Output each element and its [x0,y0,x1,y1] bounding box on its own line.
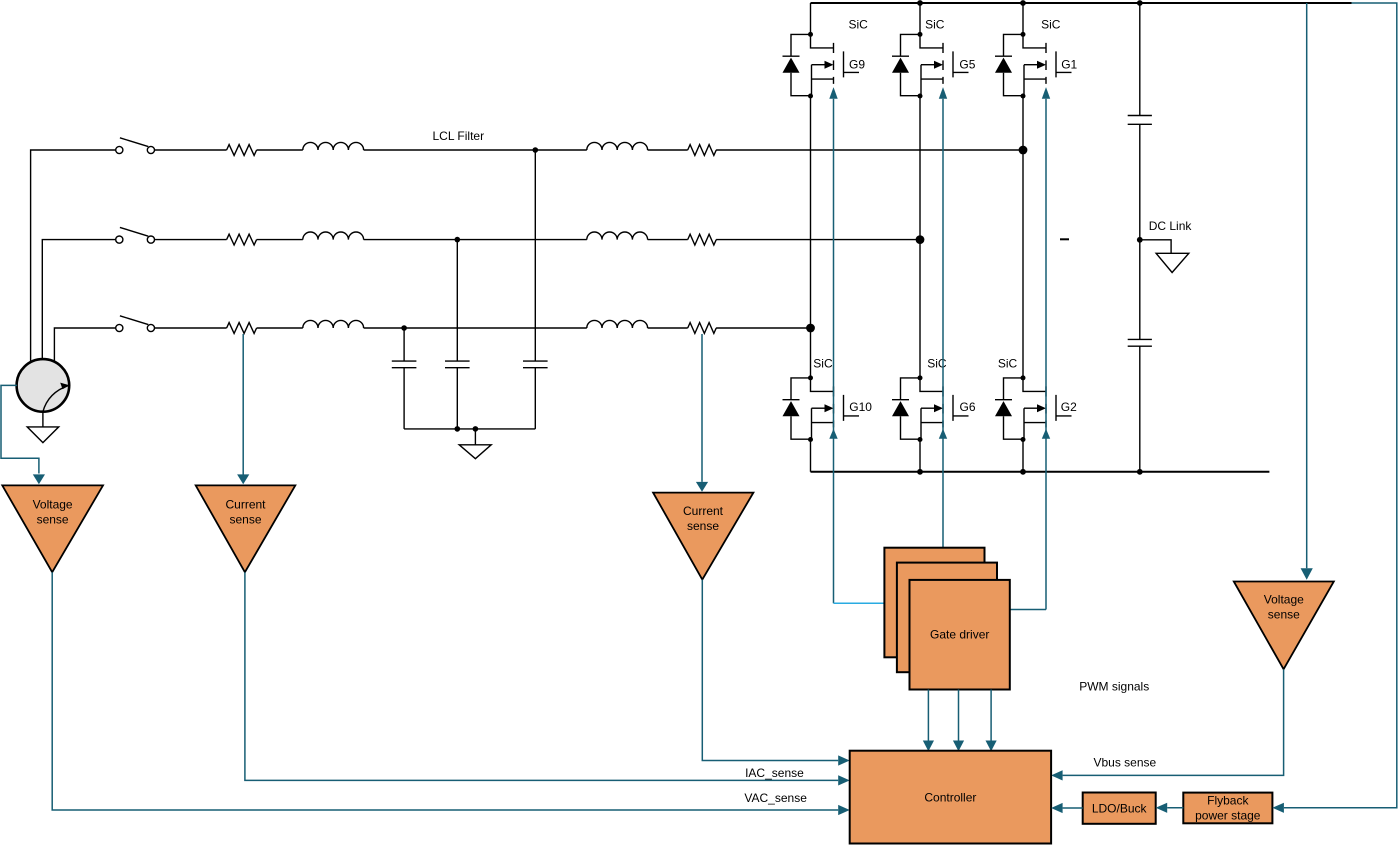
inductor L4 phase B [587,232,648,240]
svg-text:LDO/Buck: LDO/Buck [1092,801,1148,815]
wire phase B from source [42,240,115,360]
wire DC bus to voltage sense (teal) [1306,3,1308,568]
capacitor C1 [403,328,405,361]
wire phase C R to L [257,327,303,329]
capacitor C2 [456,240,458,362]
wire PWM gate driver to controller 1 (teal) [927,690,929,741]
svg-text:Gate driver: Gate driver [930,627,989,641]
node phase C bridge [806,324,815,333]
flyback power stage U5 [1183,793,1272,824]
svg-text:G2: G2 [1061,400,1077,414]
transistor Q9 (top leg1, SiC) [783,32,860,99]
node cap bank [455,426,461,432]
voltage sense block (left) [2,485,103,572]
controller U2 [850,751,1051,844]
gate driver stack back [884,548,984,658]
wire phase C L2 to R2 [648,327,688,329]
node DC link midpoint [1137,237,1143,243]
label minus [1060,238,1069,240]
gate driver U3 front [910,580,1010,690]
capacitor DC link bottom [1139,346,1141,472]
svg-text:SiC: SiC [849,17,869,31]
svg-text:SiC: SiC [813,357,833,371]
svg-text:power stage: power stage [1195,808,1261,822]
wire LDO to controller (teal) [1063,807,1083,809]
wire phase A switch to R [155,149,227,151]
transistor Q10 (bottom leg1, SiC) [783,375,860,442]
svg-text:sense: sense [687,519,719,533]
breaker switch phase C [116,324,123,331]
wire VAC_sense to controller (teal) [52,572,838,810]
wire gate drive leg1 (teal) [833,99,835,604]
wire phase A R to L [257,149,303,151]
svg-text:SiC: SiC [925,17,945,31]
svg-text:SiC: SiC [998,357,1018,371]
svg-text:Vbus sense: Vbus sense [1094,755,1157,769]
wire cap bank bottom [404,428,535,430]
node top bus leg3 [1020,0,1026,6]
svg-text:sense: sense [1268,608,1300,622]
wire leg2 vertical [919,3,921,472]
svg-text:VAC_sense: VAC_sense [744,791,807,805]
wire DC link midpoint to ground [1140,240,1171,254]
svg-text:LCL Filter: LCL Filter [433,129,485,143]
wire gate drive leg2 (teal) [942,99,944,548]
svg-text:SiC: SiC [927,357,947,371]
svg-text:Current: Current [225,497,266,511]
capacitor C3 [534,150,536,361]
node phase C cap junction [401,325,407,331]
wire phase C L1 to L2 [364,327,587,329]
current sense block (grid side) [196,485,296,572]
node phase A cap junction [533,147,539,153]
node bottom bus leg2 [917,469,923,475]
ground (DC link) [1156,253,1189,272]
capacitor DC link top [1139,3,1141,339]
breaker switch phase A [116,146,123,153]
resistor R6 phase C [688,323,717,334]
AC source waveform mark [43,385,69,412]
wire phase B tap to current sense (teal) [242,334,244,475]
wire PWM gate driver to controller 2 (teal) [958,690,960,741]
breaker switch phase B [116,236,123,243]
node bottom bus leg3 [1020,469,1026,475]
wire Vbus sense to controller (teal) [1063,669,1284,775]
wire phase A L1 to L2 [364,149,587,151]
svg-text:IAC_sense: IAC_sense [745,766,804,780]
transistor Q6 (bottom leg2, SiC) [892,375,969,442]
wire phase C tap to current sense (teal) [701,334,703,482]
svg-text:PWM signals: PWM signals [1079,679,1149,693]
inductor L3 phase B [303,232,364,240]
wire IAC_sense to controller (teal) [245,572,838,780]
transistor Q2 (bottom leg3, SiC) [995,375,1072,442]
node top bus leg2 [917,0,923,6]
resistor R1 phase A [227,145,257,156]
node phase A bridge [1019,146,1028,155]
inductor L5 phase C [303,320,364,328]
wire AC source to ground [42,412,44,427]
AC source V1 [17,359,70,412]
svg-text:G9: G9 [849,58,865,72]
node cap bank ground tap [473,426,479,432]
wire phase A to bridge [716,149,1023,151]
ground (cap bank) [459,445,491,459]
resistor R5 phase C [227,323,257,334]
svg-text:Controller: Controller [924,790,976,804]
inductor L2 phase A [587,142,648,150]
wire phase B L1 to L2 [364,239,587,241]
gate driver stack middle [897,563,997,673]
svg-text:Current: Current [683,504,724,518]
wire phase B to bridge [716,239,920,241]
resistor R3 phase B [227,234,257,245]
svg-text:Voltage: Voltage [33,497,73,511]
svg-text:G5: G5 [959,58,975,72]
svg-text:DC Link: DC Link [1149,219,1193,233]
node phase B bridge [916,235,925,244]
wire converter current sense to controller (teal) [702,580,838,761]
transistor Q5 (top leg2, SiC) [892,32,969,99]
wire flyback to LDO (teal) [1167,807,1183,809]
svg-text:sense: sense [229,513,261,527]
wire PWM gate driver to controller 3 (teal) [990,690,992,741]
wire AC tap to voltage sense (teal) [1,385,39,473]
wire DC bus to flyback (teal) [1284,3,1397,808]
current sense block (converter side) [653,493,753,580]
wire phase B L2 to R2 [648,239,688,241]
wire phase C switch to R [155,327,227,329]
inductor L1 phase A [303,142,364,150]
wire DC+ top bus [811,2,1352,4]
wire gate drive leg1 horizontal (light blue) [834,602,885,604]
wire gate drive leg3 (teal) [1010,99,1046,610]
wire DC- bottom bus [811,471,1270,473]
node top bus DC link [1137,0,1143,6]
wire phase C from source [54,328,115,363]
wire cap bank to ground [474,429,476,445]
wire phase B switch to R [155,239,227,241]
wire phase B R to L [257,239,303,241]
inductor L6 phase C [587,320,648,328]
svg-text:Voltage: Voltage [1264,592,1304,606]
wire phase A from source [31,150,116,363]
voltage sense block (DC bus) [1234,582,1334,670]
resistor R2 phase A [688,145,717,156]
resistor R4 phase B [688,234,717,245]
node phase B cap junction [455,237,461,243]
node bottom bus DC link [1137,469,1143,475]
wire leg3 vertical [1022,3,1024,472]
svg-text:sense: sense [37,513,69,527]
wire phase C to bridge [716,327,810,329]
svg-text:G10: G10 [849,400,872,414]
svg-text:SiC: SiC [1041,17,1061,31]
svg-text:G6: G6 [960,400,976,414]
LDO/Buck U4 [1083,793,1156,824]
transistor Q1 (top leg3, SiC) [995,32,1072,99]
ground (AC source) [27,427,59,443]
svg-text:G1: G1 [1061,58,1077,72]
wire phase A L2 to R2 [648,149,688,151]
wire leg1 vertical [810,3,812,472]
svg-text:Flyback: Flyback [1207,793,1249,807]
